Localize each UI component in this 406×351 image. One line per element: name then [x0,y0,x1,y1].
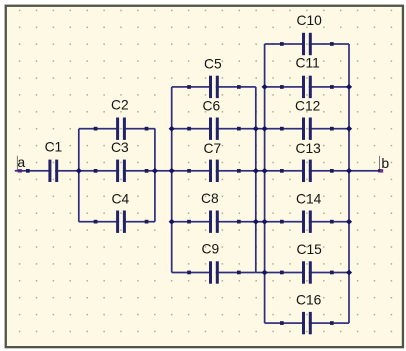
node 4 junction mid bus at r3 [253,168,259,174]
wire C13 left [265,170,305,172]
svg-text:C6: C6 [203,99,221,114]
wire C15 left [265,272,305,274]
wire C15 right [309,272,349,274]
svg-text:C14: C14 [296,192,322,207]
capacitor C3 [94,140,149,182]
wire C6 left [172,128,212,130]
node 4 junction right-group left bus at r3 [262,168,268,174]
wire C9 left [172,272,212,274]
svg-text:C9: C9 [202,242,220,257]
node 2 junction left [76,168,82,174]
svg-text:C13: C13 [296,141,322,156]
capacitor C8 [187,191,241,233]
svg-text:C10: C10 [297,13,323,28]
wire right bus of group 2 [255,87,257,273]
wire a to C1 [15,170,52,172]
capacitor C15 [280,242,334,283]
wire C3 left [79,170,119,172]
wire bus link at row r3 [256,170,265,172]
port a [17,154,26,173]
wire C4 left [79,221,119,223]
node 4 junction right-group left bus at r1 [262,84,268,90]
node 2 junction right [152,168,158,174]
node 4 junction mid bus at r2 [253,126,259,132]
wire C13 right [309,170,349,172]
wire left bus of group 2 [171,87,173,273]
wire C12 left [265,128,305,130]
capacitor C6 [187,99,241,140]
capacitor C1 [26,140,62,182]
node 5 junction right bus at r5 [346,270,352,276]
wire C8 right [216,221,256,223]
wire C2 left [79,128,119,130]
wire C1 to node 2 [55,170,79,172]
wire left bus of group 3 [264,44,266,323]
capacitor C12 [280,99,334,140]
wire C7 left [172,170,212,172]
wire C11 right [309,86,349,88]
wire C16 left [265,322,305,324]
wire C2 right [123,128,155,130]
node 4 junction right-group left bus at r4 [262,219,268,225]
wire C6 right [216,128,256,130]
wire C14 right [309,221,349,223]
svg-text:C7: C7 [204,141,222,156]
svg-text:C4: C4 [112,192,130,207]
capacitor C7 [187,141,241,182]
node 3 junction at r4 [169,219,175,225]
capacitor C11 [280,56,334,98]
wire right bus of group 1 [154,129,156,222]
svg-text:C3: C3 [111,140,129,155]
svg-text:C8: C8 [201,191,219,206]
wire right bus of group 3 [348,44,350,323]
node 3 junction at r2 [169,126,175,132]
wire C8 left [172,221,212,223]
port b [378,155,389,173]
node 4 junction right-group left bus at r2 [262,126,268,132]
svg-text:C12: C12 [295,99,320,114]
capacitor C10 [280,13,334,55]
svg-text:C2: C2 [111,98,129,113]
wire C3 right [123,170,155,172]
wire C5 right [216,86,256,88]
wire bus link at row r2 [256,128,265,130]
wire C4 right [123,221,155,223]
svg-text:C5: C5 [204,57,222,72]
node 3 junction at r3 [169,168,175,174]
capacitor C14 [280,192,334,233]
wire C5 left [172,86,212,88]
svg-text:C1: C1 [45,140,63,155]
capacitor C13 [280,141,334,182]
svg-text:a: a [17,154,25,170]
capacitor C5 [187,57,241,98]
node 4 junction mid bus at r4 [253,219,259,225]
svg-text:C16: C16 [296,293,322,308]
node 5 junction right bus at r2 [346,126,352,132]
wire node 2 to node 3 [155,170,172,172]
wire C12 right [309,128,349,130]
node 5 junction right bus at r4 [346,219,352,225]
wire C9 right [216,272,256,274]
node 5 junction right bus at r3 [346,168,352,174]
capacitor C9 [187,242,241,284]
wire node 4 to b [349,170,380,172]
node 5 junction right bus at r1 [346,84,352,90]
wire C7 right [216,170,256,172]
wire C11 left [265,86,305,88]
wire C10 right [309,43,349,45]
wire left bus of group 1 [78,129,80,222]
capacitor C2 [94,98,149,140]
svg-text:C11: C11 [296,56,320,71]
wire C14 left [265,221,305,223]
node 4 junction right-group left bus at r5 [262,270,268,276]
capacitor C4 [94,192,149,233]
wire bus link at row r4 [256,221,265,223]
wire C16 right [309,322,349,324]
wire bus link at row r5 [256,272,265,274]
svg-text:C15: C15 [297,242,323,257]
wire C10 left [265,43,305,45]
capacitor C16 [280,293,334,335]
svg-text:b: b [381,155,389,171]
